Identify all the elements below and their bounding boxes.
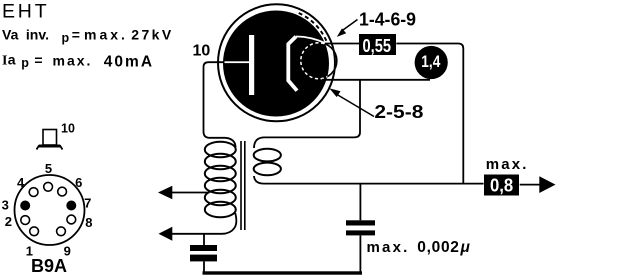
socket pin 2 <box>21 216 30 225</box>
capacitor C1 <box>190 245 217 261</box>
svg-text:4: 4 <box>17 175 25 190</box>
svg-text:2-5-8: 2-5-8 <box>374 102 423 122</box>
svg-text:Va: Va <box>2 27 19 43</box>
tube V1 anode lead <box>225 61 250 63</box>
wire anode to pin 10 and down to transformer primary <box>204 62 236 147</box>
svg-text:1-4-6-9: 1-4-6-9 <box>359 10 416 30</box>
socket B9A outline <box>15 175 85 245</box>
tap arrow lower on primary <box>159 227 205 241</box>
wire cathode to 0,55 box <box>325 43 360 45</box>
svg-text:=: = <box>34 52 42 68</box>
tube V1 cathode lead <box>296 36 326 43</box>
socket pin 7 <box>66 201 76 211</box>
socket pin 9 <box>57 227 66 236</box>
wire 0,55 box to right vertical <box>396 44 463 184</box>
output arrow <box>520 176 556 193</box>
tube V1 anode bar <box>249 35 254 95</box>
svg-text:max.: max. <box>84 27 128 43</box>
transformer T1 core <box>241 141 245 230</box>
transformer T1 primary bottom lead <box>204 213 236 234</box>
bottom rail <box>203 271 363 274</box>
svg-text:2: 2 <box>5 214 12 229</box>
svg-text:10: 10 <box>61 122 75 136</box>
svg-text:=: = <box>72 27 80 43</box>
tube V1 envelope outer circle <box>218 4 335 121</box>
socket pin 3 <box>20 201 30 211</box>
rating Ia p = max. 40mA <box>2 52 154 71</box>
svg-text:μ: μ <box>460 239 471 256</box>
svg-text:0,002: 0,002 <box>417 239 459 256</box>
svg-text:10: 10 <box>193 43 211 60</box>
svg-text:1,4: 1,4 <box>421 53 441 71</box>
svg-text:p: p <box>21 56 29 70</box>
label 1-4-6-9 <box>359 10 416 30</box>
tube V1 cathode bracket <box>288 37 297 91</box>
wire heater to 1,4 circle <box>322 79 430 81</box>
tap arrow upper on primary <box>158 186 209 199</box>
svg-text:0,55: 0,55 <box>363 35 392 56</box>
capacitor C1 top lead <box>203 234 205 245</box>
svg-text:3: 3 <box>2 198 9 213</box>
tube V1 envelope disc <box>223 11 329 117</box>
svg-text:max.: max. <box>486 156 529 173</box>
svg-text:Ia: Ia <box>2 52 16 69</box>
svg-text:max.: max. <box>53 53 93 69</box>
leader arrow to 1-4-6-9 <box>337 20 358 37</box>
transformer T1 secondary bottom lead / output rail <box>254 176 484 184</box>
svg-text:inv.: inv. <box>26 27 49 43</box>
socket pin labels <box>2 161 93 258</box>
socket pin 1 <box>30 227 39 236</box>
tube V1 heater circle outside envelope <box>301 43 337 79</box>
value circle 1,4 <box>415 46 448 79</box>
wire heater down to transformer secondary top <box>254 80 360 148</box>
capacitor C1 bottom lead <box>203 261 205 272</box>
label max. above 0,8 <box>486 156 529 173</box>
svg-text:0,8: 0,8 <box>490 175 513 196</box>
socket pin 6 <box>58 187 67 196</box>
value box 0,55 <box>359 34 396 56</box>
socket pin 8 <box>67 215 76 224</box>
svg-text:EHT: EHT <box>2 0 49 22</box>
capacitor C2 bottom lead <box>359 235 361 272</box>
tube V1 grid dashed arc <box>299 13 328 44</box>
leader arrow to 2-5-8 <box>329 88 374 116</box>
svg-text:5: 5 <box>45 161 52 176</box>
svg-text:max.: max. <box>367 239 410 256</box>
svg-text:6: 6 <box>75 175 82 190</box>
rating Va inv p = max. 27kV <box>2 27 174 46</box>
title EHT <box>2 0 49 22</box>
capacitor C2 <box>346 220 375 235</box>
svg-text:27kV: 27kV <box>131 27 173 43</box>
label 2-5-8 <box>374 102 423 122</box>
transformer T1 secondary winding <box>254 149 281 175</box>
capacitor C2 top lead <box>359 184 361 221</box>
label max. 0,002u <box>367 239 471 256</box>
svg-text:p: p <box>62 31 70 45</box>
socket pin 4 <box>29 188 38 197</box>
svg-text:B9A: B9A <box>31 256 67 276</box>
svg-text:8: 8 <box>85 215 92 230</box>
value box 0,8 <box>484 175 519 196</box>
top cap label 10 <box>61 122 75 136</box>
svg-text:7: 7 <box>84 196 91 211</box>
socket label B9A <box>31 256 67 276</box>
pin label 10 at tube <box>193 43 211 60</box>
svg-text:40mA: 40mA <box>104 54 154 71</box>
socket pin 5 <box>44 182 53 191</box>
top cap symbol <box>37 130 63 150</box>
tube V1 heater dashed circle <box>301 43 337 79</box>
transformer T1 primary winding <box>205 142 236 218</box>
